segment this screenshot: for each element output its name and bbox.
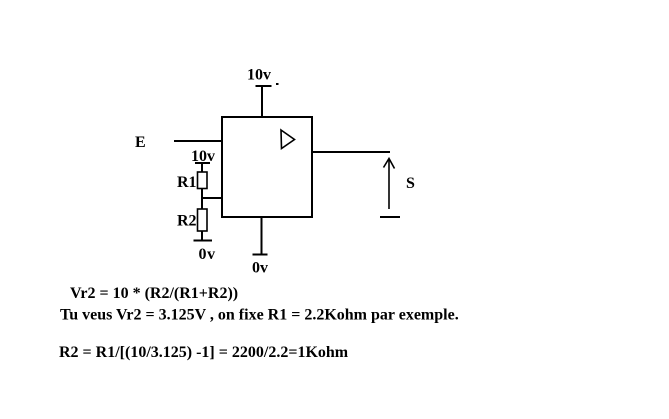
wire top supply xyxy=(261,86,263,117)
svg-text:Tu veus Vr2 = 3.125V , on fixe: Tu veus Vr2 = 3.125V , on fixe R1 = 2.2K… xyxy=(60,307,459,324)
svg-text:S: S xyxy=(406,175,415,192)
svg-text:Vr2 = 10 * (R2/(R1+R2)): Vr2 = 10 * (R2/(R1+R2)) xyxy=(70,285,238,302)
power rail bar divider xyxy=(195,162,210,164)
arrow S head xyxy=(384,159,395,169)
svg-text:0v: 0v xyxy=(199,246,216,263)
stray dot xyxy=(276,83,279,85)
svg-text:E: E xyxy=(135,134,146,151)
wire E input xyxy=(174,140,222,142)
power rail bar top xyxy=(256,85,272,87)
wire rail to R1 xyxy=(201,163,203,172)
svg-text:R1: R1 xyxy=(177,174,197,191)
wire bottom supply xyxy=(261,217,263,255)
resistor R2 xyxy=(198,209,208,231)
svg-text:R2 = R1/[(10/3.125) -1] = 2200: R2 = R1/[(10/3.125) -1] = 2200/2.2=1Kohm xyxy=(59,344,349,361)
wire R2 to ground xyxy=(201,231,203,241)
ground bar bottom xyxy=(253,254,268,256)
triangle symbol xyxy=(281,130,295,149)
wire output xyxy=(312,151,390,153)
svg-text:10v: 10v xyxy=(247,67,271,84)
svg-text:R2: R2 xyxy=(177,213,197,230)
svg-text:0v: 0v xyxy=(252,260,268,277)
resistor R1 xyxy=(198,172,208,189)
ground bar divider xyxy=(194,240,213,242)
arrow S shaft xyxy=(388,159,390,210)
wire junction to box xyxy=(202,197,222,199)
reference bar S xyxy=(380,216,400,218)
wire R1 to R2 xyxy=(201,189,203,210)
comparator box U1 xyxy=(222,117,312,217)
